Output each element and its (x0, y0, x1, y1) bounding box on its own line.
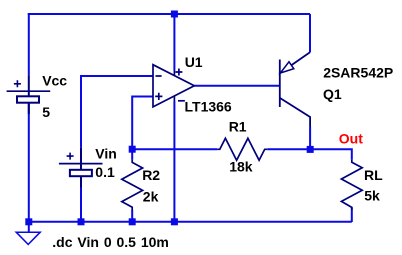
svg-text:2SAR542P: 2SAR542P (323, 64, 393, 80)
junction feedback node (129, 146, 136, 153)
junction Out node (307, 146, 314, 153)
wire Q1 collector vertical (309, 127, 311, 149)
battery Vin (59, 148, 103, 188)
wire Vin top lead to op-amp inverting input (81, 76, 153, 148)
junction R2 bottom (129, 218, 136, 225)
resistor RL (341, 160, 362, 210)
ground (16, 232, 40, 244)
junction ground corner (25, 218, 32, 225)
svg-text:LT1366: LT1366 (185, 98, 232, 114)
wire left rail (28, 13, 30, 75)
svg-text:2k: 2k (143, 188, 159, 204)
junction op-amp V- bottom (171, 218, 178, 225)
wire top rail (28, 13, 310, 15)
svg-text:U1: U1 (185, 54, 203, 70)
svg-text:R2: R2 (142, 167, 160, 183)
svg-text:Vin: Vin (95, 146, 117, 162)
resistor R1 (217, 138, 267, 160)
svg-text:R1: R1 (229, 119, 247, 135)
wire non-inverting input to feedback node (132, 97, 153, 150)
svg-text:Q1: Q1 (323, 86, 342, 102)
wire op-amp V+ supply (173, 14, 175, 71)
battery Vcc (7, 75, 51, 114)
wire Vcc bottom lead (28, 103, 30, 222)
junction op-amp V+ tap (171, 11, 178, 18)
wire ground stub (28, 222, 30, 232)
svg-text:RL: RL (364, 167, 383, 183)
transistor Q1 (280, 52, 310, 127)
svg-text:Vcc: Vcc (42, 73, 67, 89)
junction Vin bottom (78, 218, 85, 225)
svg-text:18k: 18k (229, 159, 253, 175)
resistor R2 (131, 149, 133, 160)
svg-text:.dc Vin 0 0.5 10m: .dc Vin 0 0.5 10m (52, 234, 169, 250)
wire Vin bottom lead (80, 188, 82, 222)
wire R1 right to Out corner and RL top lead (267, 149, 352, 159)
wire Q1 emitter drop from top rail (309, 14, 311, 52)
wire RL bottom lead (351, 207, 353, 222)
svg-text:0.1: 0.1 (95, 164, 115, 180)
svg-text:Out: Out (339, 131, 363, 147)
op-amp U1 (153, 65, 194, 107)
wire bottom rail (29, 221, 352, 223)
svg-text:5: 5 (42, 104, 50, 120)
wire feedback node to R1 left (132, 148, 217, 150)
wire op-amp output to Q1 base (194, 85, 279, 87)
wire op-amp V- supply to ground rail (173, 101, 175, 222)
svg-text:5k: 5k (364, 188, 380, 204)
